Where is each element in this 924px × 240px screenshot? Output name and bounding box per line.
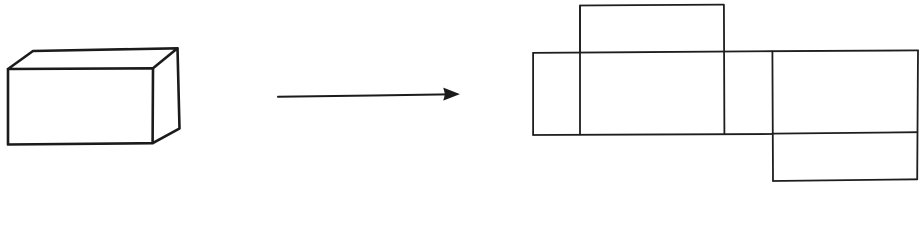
- net vertical C/D going down to flap F: [771, 51, 774, 181]
- net D/F boundary: [772, 132, 917, 133]
- net right rect top edge: [772, 49, 918, 52]
- net top flap rectangle: [580, 5, 724, 53]
- net vertical A/B: [579, 6, 581, 135]
- cuboid right face edges: [153, 48, 180, 143]
- net left square left edge: [532, 53, 534, 135]
- arrow shaft: [278, 94, 447, 96]
- arrow head: [444, 89, 459, 100]
- net right rect right edge down through bottom flap: [916, 50, 919, 179]
- cuboid top face edges: [8, 48, 178, 69]
- net bottom flap bottom edge: [773, 179, 917, 181]
- net band top edge: [533, 51, 772, 53]
- cuboid front face: [8, 68, 153, 144]
- net band bottom edge: [533, 134, 772, 135]
- net vertical B/C (with flap right edge): [723, 5, 726, 134]
